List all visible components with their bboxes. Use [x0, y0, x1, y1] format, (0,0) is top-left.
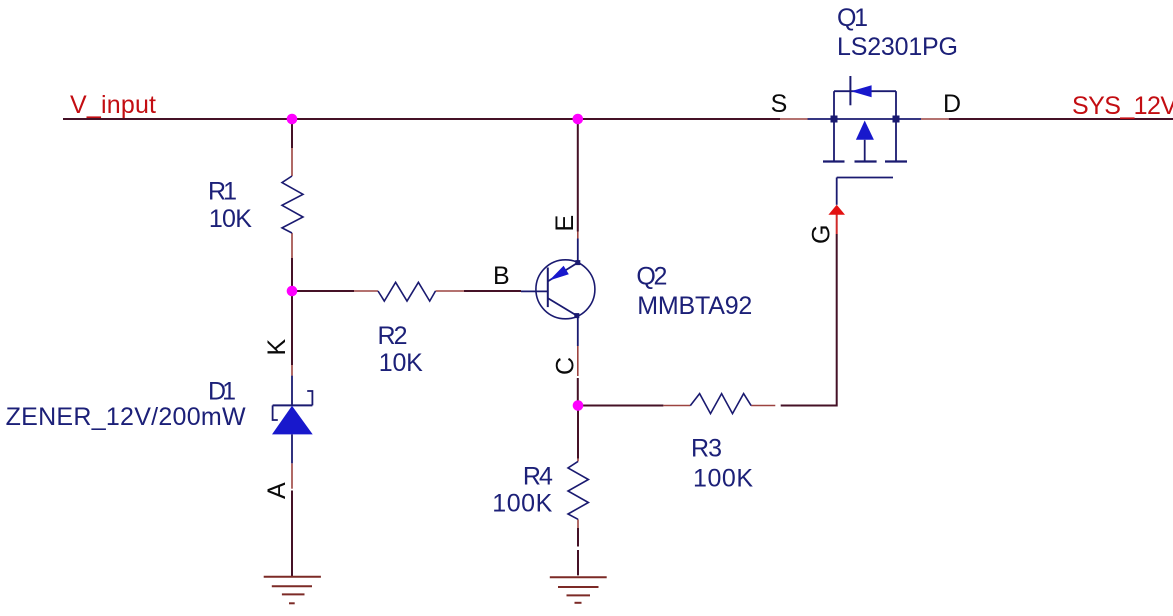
wire node C to R3 — [578, 405, 663, 407]
zener D1 anode triangle — [272, 406, 313, 435]
pin R4 top — [577, 459, 579, 462]
Q1 body diode cathode bar — [849, 76, 851, 105]
wire R1 bottom to node K — [291, 258, 293, 291]
Q1 pin junction square S — [831, 116, 838, 123]
Q2 emitter diagonal — [548, 263, 578, 282]
svg-text:10K: 10K — [209, 205, 252, 233]
Q1 channel bar middle — [855, 160, 877, 162]
wire main horizontal V_input bus left segment — [63, 118, 780, 120]
pin R3 right — [751, 405, 775, 407]
Q1 mid horizontal — [834, 118, 896, 120]
Q1 channel bar left — [823, 160, 845, 162]
svg-text:Q1: Q1 — [837, 4, 868, 32]
svg-text:R2: R2 — [378, 322, 408, 350]
Q2 collector diagonal — [548, 298, 577, 316]
wire node K down to zener — [291, 291, 293, 365]
wire main horizontal right segment to SYS_12V — [949, 118, 1173, 120]
ground under D1 — [264, 577, 321, 604]
pin R4 bottom — [577, 519, 579, 528]
svg-text:100K: 100K — [693, 465, 753, 493]
svg-text:K: K — [263, 339, 291, 356]
pin D1 anode — [291, 463, 293, 488]
pin R1 bottom — [291, 233, 293, 258]
wire R2 to Q2 base — [464, 290, 521, 292]
pin R2 right — [436, 290, 465, 292]
mosfet Q1 D pin navy — [896, 118, 921, 120]
node junction dot at emitter column — [573, 114, 584, 125]
Q2 emitter vertical lead — [577, 239, 579, 263]
zener D1 bottom navy lead — [291, 434, 293, 463]
svg-text:A: A — [263, 482, 291, 499]
wire R4 ground stub — [577, 550, 579, 575]
zener D1 cathode bar — [273, 404, 313, 406]
wire D1 anode to ground — [291, 491, 293, 577]
Q2 base lead — [521, 290, 548, 292]
svg-text:C: C — [552, 357, 580, 375]
Q2 collector junction square — [574, 313, 579, 318]
pin R1 top — [291, 148, 293, 176]
node C junction dot — [573, 400, 584, 411]
zener D1 top navy lead — [291, 376, 293, 406]
Q2 collector vertical lead — [577, 316, 579, 346]
svg-text:ZENER_12V/200mW: ZENER_12V/200mW — [6, 403, 246, 431]
svg-text:V_input: V_input — [70, 91, 156, 119]
Q1 up arrow triangle — [856, 121, 874, 140]
mosfet Q1 D pin lead — [921, 118, 949, 120]
wire node C down to R4 — [577, 406, 579, 459]
svg-text:10K: 10K — [379, 349, 423, 377]
node K junction dot — [287, 286, 298, 297]
pin R2 left — [354, 290, 378, 292]
zener D1 left hook — [273, 405, 278, 420]
resistor R2 body — [378, 282, 436, 301]
mosfet Q1 S pin navy — [808, 118, 834, 120]
Q1 right vertical — [895, 91, 897, 161]
wire R4 bottom to ground — [577, 528, 579, 547]
Q1 gate bar — [837, 177, 893, 179]
svg-text:Q2: Q2 — [636, 263, 667, 291]
node junction dot at R1 top — [287, 114, 298, 125]
pin Q2 collector — [577, 346, 579, 376]
svg-text:100K: 100K — [492, 490, 552, 518]
wire R1 top lead from node — [291, 119, 293, 148]
Q1 gate vertical — [836, 178, 838, 205]
svg-text:R4: R4 — [523, 462, 553, 490]
resistor R4 body — [568, 461, 588, 519]
pin Q2 emitter — [577, 232, 579, 239]
Q1 left vertical — [833, 91, 835, 161]
svg-text:D1: D1 — [208, 378, 236, 406]
Q2 emitter junction square — [575, 260, 580, 265]
wire Q2 collector to node C — [577, 378, 579, 401]
resistor R1 body — [282, 176, 303, 233]
svg-text:D: D — [943, 90, 961, 118]
svg-text:B: B — [493, 262, 510, 290]
svg-text:G: G — [808, 225, 836, 244]
svg-text:LS2301PG: LS2301PG — [837, 33, 958, 61]
Q1 mid vertical — [864, 140, 866, 162]
Q1 top horizontal — [834, 90, 896, 92]
pin R3 left — [663, 405, 690, 407]
resistor R3 body — [690, 394, 751, 414]
svg-text:E: E — [551, 215, 579, 232]
wire R3 to gate corner — [781, 234, 837, 406]
Q2 emitter arrow — [549, 266, 569, 281]
Q1 body diode triangle — [851, 85, 872, 97]
transistor Q2 circle — [536, 260, 595, 319]
zener D1 right hook — [307, 391, 312, 405]
port arrow G (red) — [828, 205, 845, 215]
svg-text:S: S — [771, 90, 788, 118]
pin D1 cathode — [291, 365, 293, 376]
svg-text:MMBTA92: MMBTA92 — [637, 292, 752, 320]
svg-text:SYS_12V: SYS_12V — [1072, 92, 1173, 120]
svg-text:R1: R1 — [208, 177, 237, 205]
wire node K to R2 — [292, 290, 354, 292]
wire emitter from main bus node down — [577, 119, 579, 232]
Q1 channel bar right — [885, 160, 907, 162]
wire red stem below gate arrow — [836, 215, 838, 235]
mosfet Q1 S pin lead — [780, 118, 808, 120]
svg-text:R3: R3 — [691, 435, 722, 463]
Q1 pin junction square D — [893, 116, 900, 123]
ground under R4 — [550, 577, 607, 603]
Q2 base bar — [547, 268, 549, 308]
